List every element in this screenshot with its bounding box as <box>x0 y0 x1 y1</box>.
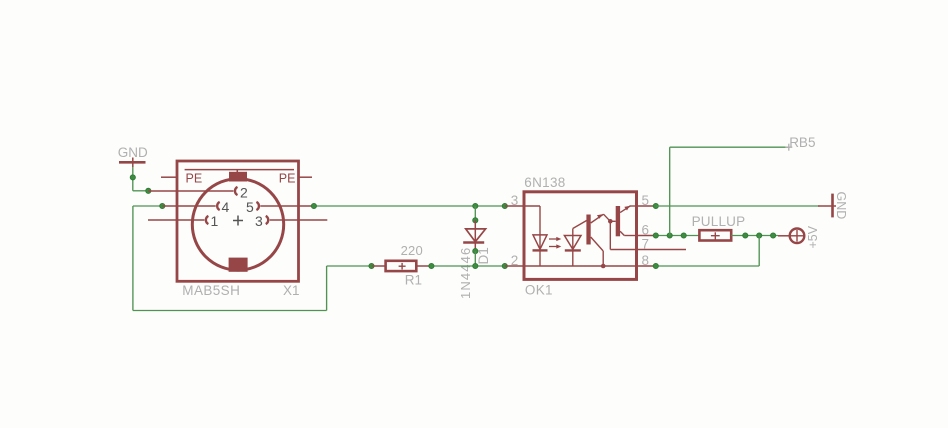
transistor Q1 of OK1 <box>586 214 610 266</box>
svg-text:2: 2 <box>511 253 519 268</box>
svg-text:PULLUP: PULLUP <box>692 214 746 229</box>
diode D1 <box>463 220 485 251</box>
junction at pin 3 of OK1 <box>502 203 507 208</box>
svg-text:3: 3 <box>511 193 519 208</box>
pin 6 of OK1 <box>637 235 656 237</box>
pin 7 of OK1 (stub) <box>637 249 687 251</box>
junction at D1 bottom <box>473 263 478 268</box>
supply symbol +5V <box>778 229 804 244</box>
junction after PULLUP b (pin8 riser) <box>757 233 762 238</box>
pad arc pin 4 <box>217 202 220 210</box>
junction at D1 top branch <box>473 203 478 208</box>
pin 8 of OK1 <box>637 265 656 267</box>
svg-text:RB5: RB5 <box>789 135 815 150</box>
svg-text:GND: GND <box>118 145 148 160</box>
wire R1 to pin 2 of OK1 <box>431 265 504 267</box>
svg-text:D1: D1 <box>476 247 491 264</box>
junction pin 6 b (RB5 riser) <box>667 233 672 238</box>
pin 3 of OK1 <box>505 205 540 207</box>
wire net RB5 horizontal <box>670 146 790 148</box>
wire pin 4 of X1 going left <box>133 205 162 207</box>
svg-text:5: 5 <box>642 193 650 208</box>
pin 4 of X1 <box>162 205 215 207</box>
wire PULLUP to +5V <box>731 235 778 237</box>
wire pin 8 OK1 to +5V rail <box>656 236 759 267</box>
svg-text:3: 3 <box>255 213 263 229</box>
svg-text:220: 220 <box>401 243 423 258</box>
svg-text:1: 1 <box>211 213 219 229</box>
resistor PULLUP <box>699 230 731 240</box>
svg-text:X1: X1 <box>283 283 300 298</box>
wire bottom horizontal run <box>133 310 327 312</box>
pad arc pin 3 <box>266 216 269 224</box>
svg-text:PE: PE <box>279 172 296 186</box>
pad arc pin 2 <box>235 187 238 195</box>
pad arc pin 5 <box>256 202 259 210</box>
svg-text:OK1: OK1 <box>525 283 553 298</box>
svg-text:PE: PE <box>186 172 203 186</box>
svg-text:8: 8 <box>642 253 650 268</box>
pin 3 of X1 <box>270 219 328 221</box>
junction D1 cathode <box>473 249 478 254</box>
pin 5 of OK1 <box>637 205 656 207</box>
junction on GND drop <box>130 175 135 180</box>
pin 2 of OK1 <box>505 265 527 267</box>
junction at pin 5 of OK1 <box>653 203 658 208</box>
wire D1 cathode to bottom row <box>474 251 476 266</box>
pin 5 of X1 <box>260 205 314 207</box>
svg-text:GND: GND <box>834 192 848 220</box>
wire D1 anode branch <box>474 206 476 220</box>
junction after PULLUP a <box>743 233 748 238</box>
svg-text:6N138: 6N138 <box>524 175 565 190</box>
pin 1 of X1 <box>148 219 204 221</box>
internal bottom rail of OK1 <box>527 265 637 267</box>
svg-text:5: 5 <box>246 199 254 215</box>
internal LED of OK1 <box>533 206 548 266</box>
internal junction at Q2 base <box>608 219 613 224</box>
pin PE right of X1 <box>299 176 313 178</box>
svg-text:6: 6 <box>642 222 650 237</box>
pin 2 of X1 <box>148 190 233 192</box>
svg-text:+5V: +5V <box>806 225 820 248</box>
ground symbol GND (right) <box>818 194 836 218</box>
label cross RB5 <box>785 144 792 151</box>
wire net RB5 riser <box>669 147 671 235</box>
wire to R1 left pin <box>327 265 372 267</box>
junction at pin 5 of X1 <box>311 203 316 208</box>
junction pin 6 c <box>681 233 686 238</box>
junction pin 6 a <box>653 233 658 238</box>
wire rise to R1 row <box>326 266 328 311</box>
resistor R1 <box>372 261 432 271</box>
pad arc pin 1 <box>206 216 209 224</box>
light emission arrows <box>549 237 561 249</box>
internal link to pin 7 <box>610 221 636 249</box>
junction at R1 left pin <box>369 263 374 268</box>
junction D1 anode <box>473 218 478 223</box>
transistor Q2 of OK1 <box>610 206 636 237</box>
wire pin 5 OK1 to GND right <box>656 205 820 207</box>
junction at pin 8 of OK1 <box>653 263 658 268</box>
junction at pin 4 of X1 <box>160 203 165 208</box>
svg-text:R1: R1 <box>405 272 422 287</box>
junction after PULLUP c <box>771 233 776 238</box>
svg-text:1N4446: 1N4446 <box>458 247 473 299</box>
pin PE left of X1 <box>161 176 177 178</box>
svg-text:4: 4 <box>222 199 230 215</box>
connector X1 body <box>177 161 299 281</box>
wire pin 5 X1 to pin 3 OK1 <box>314 205 505 207</box>
wire pin 6 OK1 to PULLUP <box>656 235 700 237</box>
internal photodiode of OK1 <box>564 221 586 267</box>
svg-text:MAB5SH: MAB5SH <box>182 283 240 298</box>
junction at R1 right pin <box>429 263 434 268</box>
origin cross of X1 <box>233 216 243 226</box>
wire left vertical down <box>132 206 134 311</box>
svg-text:7: 7 <box>642 236 650 251</box>
ground symbol GND (top left) <box>119 158 146 168</box>
wire GND vertical drop <box>132 167 134 191</box>
junction at pin 2 of OK1 <box>502 263 507 268</box>
junction at pin 2 of X1 <box>146 188 151 193</box>
wire GND to pin 2 of X1 <box>133 190 149 192</box>
optocoupler OK1 box <box>524 192 637 280</box>
internal junction on bottom rail <box>601 264 606 269</box>
